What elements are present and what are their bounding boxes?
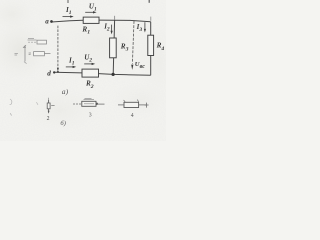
left margin fragment: box 1 xyxy=(37,40,47,44)
wire: bottom rail d to R2 xyxy=(54,71,82,74)
svg-text:а): а) xyxy=(62,87,69,96)
wire: top rail R1 to right corner xyxy=(99,20,151,22)
current I3 arrow (down) xyxy=(144,22,146,29)
node d junction dot xyxy=(53,71,55,73)
left margin fragment: wire to main figure xyxy=(44,53,50,55)
resistor R2 box xyxy=(82,69,99,77)
left margin fragment: tiny label U xyxy=(29,53,31,55)
junction blob: U arrow foot on bottom rail xyxy=(57,71,59,73)
main circuit (figure a) xyxy=(52,20,151,75)
svg-text:d: d xyxy=(47,70,51,78)
bottom fragment 3: inner text xyxy=(84,103,94,105)
wire: top rail a to R1 xyxy=(52,20,84,22)
stray speck xyxy=(36,102,38,105)
bottom fragment 2: arrowhead xyxy=(48,111,50,114)
resistor R1 box xyxy=(83,17,99,23)
voltage arrow a-d (dashed, left) xyxy=(57,26,59,69)
bottom fragment 4: cross terminal xyxy=(145,103,149,108)
left margin fragment: lower marks xyxy=(24,62,27,64)
junction dot bottom rail / R3 xyxy=(112,73,115,76)
bottom fragment 3: right wire with dot xyxy=(96,103,105,105)
stray mark top edge left xyxy=(67,0,69,3)
left margin fragment: wire into box 1 xyxy=(28,41,37,43)
scan noise xyxy=(0,0,1,1)
stray curl bottom left xyxy=(10,99,12,105)
resistor R4 box (vertical) xyxy=(148,35,154,55)
current I1 arrow (top) xyxy=(63,16,72,18)
left margin fragment: tiny text row xyxy=(28,39,37,40)
svg-text:2: 2 xyxy=(47,116,50,122)
svg-text:б): б) xyxy=(60,120,66,127)
tick above right corner xyxy=(150,17,152,21)
bottom fragment 2: element body xyxy=(48,100,50,113)
bottom fragment 3: tiny text above xyxy=(84,98,95,99)
bottom fragment 2: top tick xyxy=(48,98,50,100)
bottom fragment 3: left wire xyxy=(73,103,82,105)
node b tick above rail xyxy=(114,16,116,20)
svg-text:4: 4 xyxy=(131,113,134,119)
current I2 arrow (down) xyxy=(111,25,113,32)
voltage Ubc arrow line (dashed vertical) xyxy=(132,21,134,64)
voltage U2 arrow xyxy=(84,63,92,65)
left margin fragment: squiggle xyxy=(23,45,26,48)
bottom fragment 4: ticks above box xyxy=(124,100,139,102)
svg-text:3: 3 xyxy=(89,112,92,118)
bottom fragment 4: right wire xyxy=(139,104,146,106)
resistor R3 box (vertical) xyxy=(110,38,117,58)
svg-text:a: a xyxy=(45,17,49,25)
current I1 arrow (bottom rail) xyxy=(66,66,74,68)
left margin fragment: vertical arrow line xyxy=(24,47,26,61)
wire: R3 branch vertical xyxy=(113,20,114,74)
scan mottle xyxy=(0,20,48,80)
node a junction dot xyxy=(50,20,53,23)
bottom fragment 4: left wire xyxy=(118,104,124,106)
stray mark top edge right xyxy=(148,0,150,3)
left margin fragment: box 2 xyxy=(34,52,45,56)
wire: R4 branch vertical right edge xyxy=(150,22,152,76)
bottom fragment 4: box xyxy=(124,102,139,107)
bottom fragment 3: box xyxy=(82,101,96,106)
left margin fragment: tiny label left xyxy=(15,53,18,55)
voltage U1 arrow xyxy=(85,11,93,13)
stray dot bottom left xyxy=(10,113,11,115)
wire: bottom rail R2 to right corner xyxy=(99,74,151,76)
bottom fragment 2: side dash xyxy=(51,104,54,106)
